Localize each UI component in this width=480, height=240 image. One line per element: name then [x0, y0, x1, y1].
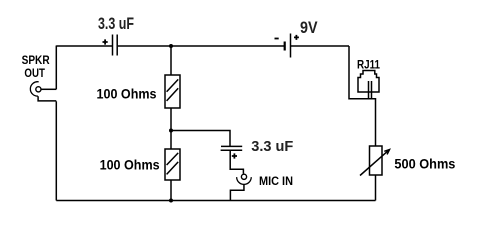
connector J1 SPKR jack tip circle	[36, 87, 41, 92]
capacitor C1 right plate	[116, 35, 118, 56]
battery B1 negative plate	[284, 42, 286, 51]
wire R1 to node B	[170, 108, 172, 149]
capacitor C1 left plate	[112, 35, 114, 56]
wire RJ11 to R3	[372, 99, 376, 146]
minus sign of B1	[275, 38, 279, 40]
svg-text:500 Ohms: 500 Ohms	[394, 157, 455, 172]
svg-text:100 Ohms: 100 Ohms	[100, 157, 160, 172]
junction node A	[169, 44, 173, 48]
resistor R1 hatch line 2	[167, 88, 179, 101]
wire SPKR sleeve to left rail	[38, 96, 56, 101]
resistor R3 wiper arrow shaft	[360, 150, 389, 176]
svg-text:100 Ohms: 100 Ohms	[97, 87, 157, 102]
resistor R2 hatch line 2	[167, 162, 179, 175]
resistor R1 body	[165, 75, 180, 108]
wire R3 to bottom rail	[375, 175, 377, 201]
wire MIC sleeve to bottom rail	[230, 184, 244, 200]
svg-text:OUT: OUT	[24, 66, 45, 80]
wire left rail upper segment	[55, 46, 57, 90]
connector J3 MIC jack tip circle	[241, 174, 246, 179]
wire top rail middle segment	[118, 45, 284, 47]
wire bottom rail	[56, 200, 375, 202]
capacitor C2 bottom plate	[221, 149, 243, 151]
svg-text:3.3 uF: 3.3 uF	[251, 138, 293, 155]
capacitor C2 top plate	[221, 145, 242, 147]
connector J2 RJ11 contact pin 1	[368, 81, 370, 99]
resistor R2 body	[165, 149, 180, 180]
wire R2 to bottom rail	[170, 180, 172, 201]
resistor R2 hatch line 1	[167, 153, 179, 165]
wire top rail left segment	[56, 45, 112, 47]
wire node B to C2	[171, 131, 230, 147]
plus sign of C2	[232, 153, 237, 158]
wire node A to R1	[170, 46, 172, 75]
plus sign of B1	[294, 35, 299, 40]
connector J2 RJ11 contact pin 2	[371, 81, 373, 99]
plus sign of C1	[103, 39, 108, 44]
resistor R3 arrowhead	[384, 150, 389, 155]
battery B1 positive plate	[290, 34, 292, 58]
connector J3 MIC jack sleeve arc	[237, 177, 252, 184]
svg-text:3.3 uF: 3.3 uF	[98, 15, 134, 33]
wire right drop to RJ11	[349, 46, 372, 99]
connector J1 SPKR jack sleeve arc	[30, 82, 38, 96]
junction node B	[169, 129, 173, 133]
connector J2 RJ11 outline	[358, 71, 379, 93]
svg-text:MIC IN: MIC IN	[259, 174, 293, 188]
wire C2 to MIC jack	[230, 151, 243, 174]
junction node C	[169, 199, 173, 203]
wire left rail lower segment	[55, 101, 57, 200]
wire top rail right segment	[291, 45, 349, 47]
svg-text:RJ11: RJ11	[357, 58, 380, 72]
resistor R1 hatch line 1	[167, 79, 179, 91]
resistor R3 body	[370, 146, 383, 175]
wire SPKR tip to left rail	[41, 88, 56, 90]
svg-text:9V: 9V	[300, 19, 318, 37]
